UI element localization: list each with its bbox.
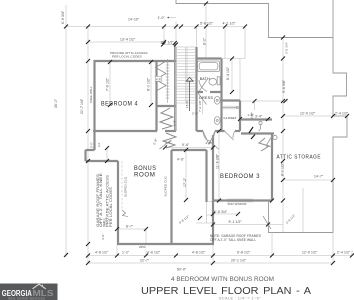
svg-text:BEDROOM 3: BEDROOM 3 [220, 173, 260, 180]
svg-text:14'-10": 14'-10" [128, 18, 140, 22]
svg-text:20'-1 1/2": 20'-1 1/2" [231, 259, 247, 263]
svg-text:3'-4": 3'-4" [255, 115, 263, 119]
svg-text:9'-1 1/2": 9'-1 1/2" [229, 220, 243, 224]
svg-text:17'-2": 17'-2" [183, 177, 187, 187]
svg-text:7'-6 1/2": 7'-6 1/2" [106, 77, 110, 91]
svg-text:DRESS: DRESS [199, 96, 213, 100]
svg-text:1'-2": 1'-2" [122, 251, 130, 255]
svg-text:18 R: 18 R [185, 101, 189, 108]
svg-text:11'-6 3/8": 11'-6 3/8" [216, 153, 220, 169]
svg-text:8'-4 1/2": 8'-4 1/2" [226, 66, 230, 80]
svg-text:50'-0": 50'-0" [177, 268, 187, 272]
svg-text:1'-0": 1'-0" [158, 16, 166, 20]
svg-text:BEDROOM 4: BEDROOM 4 [101, 101, 138, 108]
svg-text:6'-0": 6'-0" [203, 37, 207, 45]
svg-text:2050: 2050 [139, 245, 146, 249]
svg-text:6'-8 3/4": 6'-8 3/4" [214, 210, 228, 214]
svg-text:UPPER LEVEL FLOOR PLAN - A: UPPER LEVEL FLOOR PLAN - A [141, 286, 311, 297]
svg-text:4'-6 1/2": 4'-6 1/2" [147, 251, 161, 255]
svg-text:SLOPED CLG.: SLOPED CLG. [164, 175, 168, 196]
svg-text:6'-9 3/4": 6'-9 3/4" [61, 10, 65, 24]
svg-text:PER LOCAL CODES: PER LOCAL CODES [109, 186, 113, 227]
svg-text:2'-6": 2'-6" [206, 141, 212, 145]
svg-text:2-0: 2-0 [156, 77, 161, 81]
svg-text:SCALE : 1/4" = 1'-0": SCALE : 1/4" = 1'-0" [219, 297, 261, 300]
svg-text:36'-0": 36'-0" [54, 98, 58, 108]
svg-text:ATTIC STORAGE: ATTIC STORAGE [277, 155, 322, 161]
svg-text:2'-4 1/2": 2'-4 1/2" [161, 41, 175, 45]
svg-text:4'-6": 4'-6" [177, 158, 185, 162]
svg-text:SLOPED CLG.: SLOPED CLG. [124, 176, 128, 197]
svg-text:5'-0": 5'-0" [90, 142, 94, 148]
svg-text:2-6: 2-6 [97, 142, 101, 147]
svg-text:5'-8 1/2": 5'-8 1/2" [200, 22, 214, 26]
svg-text:4'-0": 4'-0" [101, 234, 105, 240]
svg-text:8'-0 1/2": 8'-0 1/2" [281, 162, 285, 176]
svg-text:KNEE WALL: KNEE WALL [89, 86, 93, 103]
svg-text:ROOM: ROOM [134, 172, 156, 179]
svg-text:1'-4": 1'-4" [248, 113, 254, 117]
svg-text:4 BEDROOM WITN BONUS ROOM: 4 BEDROOM WITN BONUS ROOM [171, 276, 274, 283]
svg-text:PER LOCAL CODES: PER LOCAL CODES [112, 55, 142, 59]
svg-text:14'-7": 14'-7" [314, 175, 324, 179]
svg-text:13'-4 1/2": 13'-4 1/2" [120, 38, 136, 42]
svg-text:12'-9 1/2": 12'-9 1/2" [300, 112, 316, 116]
svg-text:6'-8 1/2": 6'-8 1/2" [237, 251, 251, 255]
svg-text:4'-8 1/2": 4'-8 1/2" [192, 251, 206, 255]
svg-text:8'-7": 8'-7" [126, 225, 134, 229]
svg-text:8'-0 1/2": 8'-0 1/2" [147, 77, 151, 91]
svg-text:2'-4 1/2": 2'-4 1/2" [335, 112, 349, 116]
svg-text:9'-6 5/8": 9'-6 5/8" [282, 79, 286, 93]
svg-text:20'-7 1/4": 20'-7 1/4" [80, 98, 84, 114]
svg-text:22'-7": 22'-7" [140, 259, 150, 263]
svg-text:2'-8": 2'-8" [173, 120, 177, 126]
svg-text:BATH: BATH [200, 77, 210, 81]
svg-text:5040 WINDOW: 5040 WINDOW [228, 202, 247, 206]
svg-text:9'-6": 9'-6" [182, 143, 190, 147]
svg-text:2'-4 1/2": 2'-4 1/2" [337, 251, 351, 255]
svg-text:CLOSET: CLOSET [224, 116, 237, 120]
svg-text:OFF A 2'-0" TALL KNEE WALL: OFF A 2'-0" TALL KNEE WALL [210, 238, 256, 242]
svg-text:4'-8 1/2": 4'-8 1/2" [95, 251, 109, 255]
svg-text:4'-2 1/2": 4'-2 1/2" [223, 22, 237, 26]
svg-text:2'-0": 2'-0" [192, 112, 198, 116]
svg-text:3'-0 3/4": 3'-0 3/4" [285, 42, 289, 54]
svg-text:7'-2 1/8": 7'-2 1/8" [198, 100, 202, 112]
svg-text:12'-9 1/2": 12'-9 1/2" [302, 251, 318, 255]
svg-text:2'-8": 2'-8" [165, 141, 171, 145]
